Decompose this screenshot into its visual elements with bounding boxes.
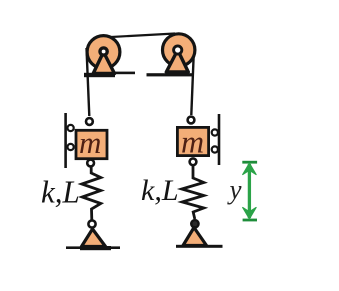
rope left vertical: [87, 48, 90, 116]
right rope-mass connector ring: [188, 117, 195, 124]
pulley P2 right wheel: [163, 34, 195, 66]
pulley P2 support triangle: [166, 50, 188, 72]
right roller upper: [212, 129, 218, 135]
left roller lower: [68, 144, 74, 150]
left ground line: [66, 246, 120, 249]
rope between pulleys: [102, 34, 175, 38]
left rope-mass connector ring: [86, 118, 93, 125]
pulley P2 base line: [147, 73, 194, 76]
right roller lower: [212, 146, 218, 152]
pulley P1 base line extension: [112, 72, 135, 75]
right ground pin triangle: [183, 228, 207, 246]
right spring bottom connector ring: [191, 220, 198, 227]
svg-text:k,L: k,L: [141, 174, 179, 207]
left ground thick bar: [80, 246, 111, 250]
left roller upper: [68, 125, 74, 131]
dimension arrow y (green double arrow): [242, 161, 257, 222]
left spring bottom connector ring: [88, 220, 95, 227]
right wall: [218, 114, 221, 165]
rope right vertical: [191, 52, 194, 115]
svg-text:m: m: [181, 124, 204, 160]
pulley P1 left wheel: [87, 36, 120, 69]
right mass bottom connector ring: [190, 158, 197, 165]
left wall: [64, 113, 67, 168]
spring k,L right: [182, 165, 204, 219]
left ground pin triangle: [82, 229, 106, 247]
spring k,L left: [82, 167, 101, 221]
svg-text:k,L: k,L: [41, 174, 80, 210]
mass block left: [76, 130, 107, 158]
left mass bottom connector ring: [87, 160, 94, 167]
pulley P1 support triangle: [93, 52, 114, 74]
pulley P1 axle hole: [100, 48, 107, 55]
mass block right: [177, 127, 208, 155]
svg-text:y: y: [227, 175, 242, 205]
pulley P2 axle hole: [174, 46, 182, 54]
pulley P1 base bar: [84, 73, 115, 77]
svg-text:m: m: [79, 125, 101, 160]
right ground line: [176, 245, 223, 248]
